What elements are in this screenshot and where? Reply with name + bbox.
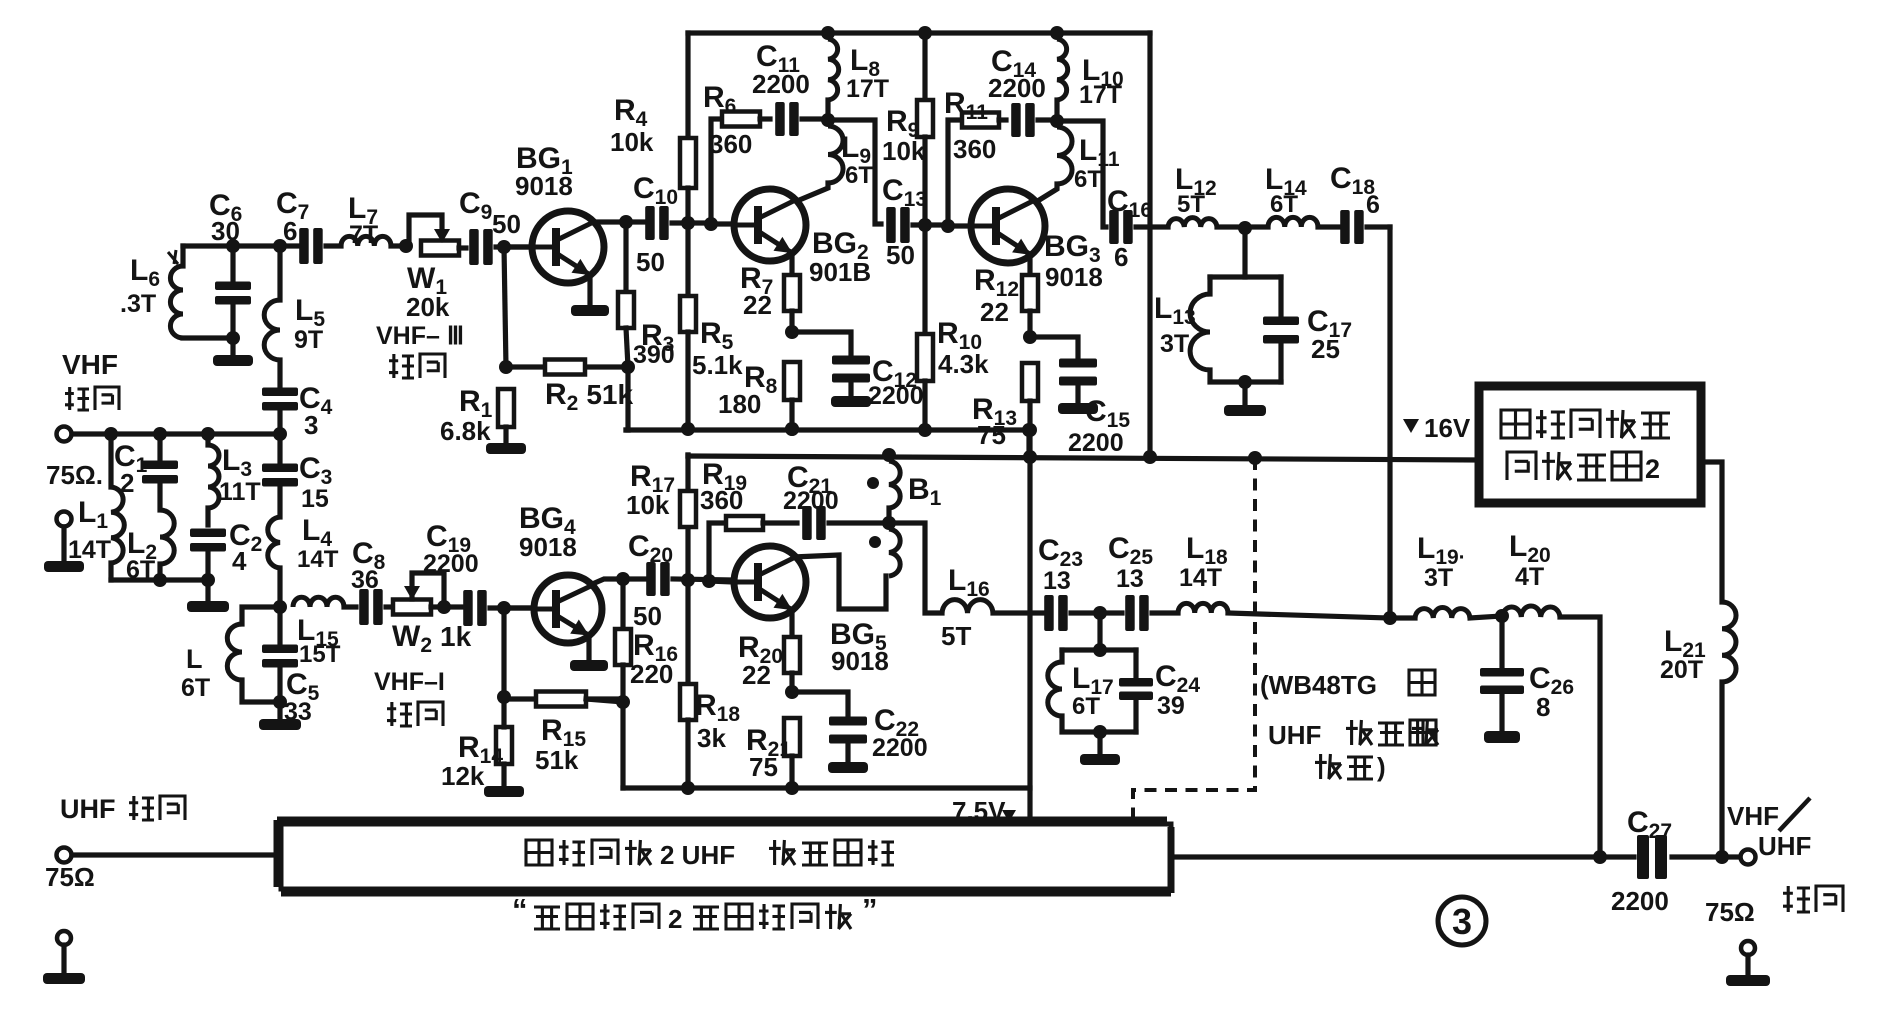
inductor L2 branch [108,434,113,487]
svg-text:3T: 3T [1160,330,1189,358]
ground bottom right [1741,941,1755,955]
svg-text:8: 8 [1536,692,1550,722]
wire B1 to L16 [889,523,942,613]
wire BG4 collector [590,579,648,585]
svg-text:9018: 9018 [515,171,573,201]
svg-text:51k: 51k [535,745,579,775]
svg-text:2 UHF: 2 UHF [660,840,735,870]
wire stage right edge [1147,33,1152,457]
svg-text:360: 360 [700,485,743,515]
svg-text:9018: 9018 [831,646,889,676]
transistor BG3 [971,189,1045,263]
junction R6 tap [704,217,718,231]
svg-text:50: 50 [633,601,662,631]
capacitor C6 [226,239,240,253]
terminal output [1741,850,1756,865]
svg-text:20k: 20k [406,292,450,322]
capacitor C11 [760,116,770,121]
svg-text:5T: 5T [1177,191,1205,218]
svg-text:6T: 6T [1072,693,1100,720]
wire BG4 base [511,605,534,610]
svg-text:22: 22 [980,297,1009,327]
inductor L15 [293,597,344,607]
ground BG1 emitter [587,275,592,305]
capacitor C2 [190,529,226,538]
transistor BG1 [532,211,604,283]
svg-text:.3T: .3T [120,290,156,318]
wire rail drop [1022,423,1036,437]
svg-text:39: 39 [1157,692,1185,720]
svg-text:50: 50 [636,247,665,277]
svg-text:2200: 2200 [988,73,1046,103]
potentiometer W2 [393,600,431,615]
svg-text:2200: 2200 [1068,429,1124,457]
resistor R5 [685,223,690,296]
capacitor C3 [277,434,282,462]
resistor R11 [962,113,999,128]
junction BG1 base node [497,240,511,254]
inductor L12 [1168,218,1217,227]
inductor L8 [821,26,835,40]
transformer B1 [882,448,896,462]
junction input-a [104,427,118,441]
svg-text:20T: 20T [1660,656,1703,684]
resistor R17 [680,491,696,527]
capacitor C14 [999,117,1006,122]
wire input bus [72,431,280,436]
svg-text:4: 4 [232,546,247,576]
box UHF amplifier section [281,824,1171,889]
svg-text:13: 13 [1043,567,1071,595]
junction BG4 base node [497,601,511,615]
svg-text:180: 180 [718,389,761,419]
junction rail x1255 [1248,451,1262,465]
transistor BG4 [534,575,602,643]
junction output L20 [1593,850,1607,864]
svg-text:14T: 14T [68,536,111,564]
wire lower supply rail 7.5V [685,455,690,580]
capacitor C25 [1125,595,1135,631]
junction 16V feed [1383,611,1397,625]
terminal VHF input [57,427,72,442]
ground under C5 [277,702,282,719]
resistor R16 [620,579,625,629]
resistor R9 [918,26,932,40]
svg-text:9T: 9T [294,326,323,354]
wire to C16 [1057,121,1106,227]
transistor BG5 [734,546,806,618]
svg-text:11T: 11T [219,478,261,506]
svg-text:6T: 6T [181,674,210,702]
junction C23 C25 [1093,606,1107,620]
svg-text:VHF: VHF [1727,801,1779,831]
wire R6 C11 feedback [711,119,722,224]
wire BG1 collector [594,219,648,224]
svg-text:VHF– Ⅲ: VHF– Ⅲ [376,322,464,350]
svg-text:3: 3 [1452,901,1472,942]
svg-text:220: 220 [630,659,673,689]
svg-text:75Ω: 75Ω [1705,897,1755,927]
junction rail x1030 [1023,450,1037,464]
svg-text:14T: 14T [1179,564,1222,592]
svg-text:22: 22 [742,660,771,690]
capacitor C13 [886,207,896,243]
svg-text:5T: 5T [941,621,971,651]
ground input tank [205,580,210,601]
svg-text:2200: 2200 [423,550,479,578]
svg-text:6T: 6T [845,162,873,189]
ground BG4 emitter [586,636,591,660]
capacitor C26 [1499,616,1504,668]
inductor L6 [180,246,185,266]
svg-text:13: 13 [1116,565,1144,593]
capacitor C9 [469,229,479,265]
capacitor C27 [1637,835,1649,879]
inductor L4 [268,517,280,568]
junction lower node [273,600,287,614]
svg-text:6T: 6T [1270,191,1298,218]
svg-text:3T: 3T [1424,564,1453,592]
svg-text:30: 30 [211,216,240,246]
svg-text:3: 3 [304,410,318,440]
junction rail R8 [785,422,799,436]
capacitor C7 [299,228,309,264]
inductor L19 [1415,608,1470,618]
svg-text:6T: 6T [1074,166,1102,193]
svg-text:2: 2 [668,904,682,934]
wire BG5 collector to B1 [793,555,886,609]
junction R20 bottom [785,685,799,699]
junction L10 L11 node [1050,114,1064,128]
svg-text:4.3k: 4.3k [938,349,989,379]
wire R19 tap up [709,523,726,581]
inductor L11 [1057,127,1072,184]
terminal UHF input [57,848,72,863]
svg-text:(WB48TG: (WB48TG [1260,670,1377,700]
resistor R19 [726,516,763,530]
svg-text:4T: 4T [1515,563,1544,591]
inductor L10 [1050,26,1064,40]
resistor R4 [685,33,690,138]
resistor R2 [506,364,545,369]
svg-text:VHF: VHF [62,349,118,380]
svg-text:36: 36 [351,566,379,594]
svg-text:9018: 9018 [519,532,577,562]
svg-text:50: 50 [492,209,521,239]
wire box to L21 [1701,462,1722,602]
resistor R1 [504,247,506,367]
wire bottom of input tank [111,577,208,582]
svg-text:6: 6 [1366,191,1380,219]
svg-text:12k: 12k [441,761,485,791]
svg-text:VHF–I: VHF–I [374,668,445,696]
capacitor C12 [792,332,851,355]
wire 7p5 rail segment [685,455,690,456]
inductor L20 [1502,606,1560,617]
inductor L parallel [242,607,280,624]
inductor L18 [1178,603,1228,613]
svg-text:2200: 2200 [783,487,839,515]
capacitor C8 [359,589,369,625]
resistor R13 [1022,363,1038,401]
wire upper chain [183,243,303,248]
svg-text:5.1k: 5.1k [692,350,743,380]
potentiometer W1 [399,239,413,253]
capacitor C10 [645,206,655,240]
svg-text:75Ω: 75Ω [45,862,95,892]
svg-text:75Ω.: 75Ω. [46,460,103,490]
svg-text:6: 6 [1114,242,1128,272]
inductor L9 [828,126,843,183]
svg-text:”: ” [862,892,878,927]
wire C18 to 16V rail [1387,227,1392,619]
resistor R18 [685,580,690,684]
svg-text:75: 75 [977,420,1006,450]
inductor L16 [942,600,993,613]
svg-text:14T: 14T [297,546,339,573]
resistor R10 [922,225,927,334]
svg-text:390: 390 [633,341,675,369]
junction L12 L14 [1238,221,1252,235]
wire BG2 base [711,221,734,226]
junction L8 L9 node [821,113,835,127]
svg-text:15T: 15T [299,641,341,668]
wire 16V rail [688,456,1480,460]
svg-text:10k: 10k [626,490,670,520]
svg-text:2: 2 [1645,454,1660,484]
svg-text:3k: 3k [697,723,726,753]
resistor R21 [784,718,800,756]
capacitor C20 [646,562,656,596]
capacitor C1 [157,434,162,459]
resistor R12 emitter [1027,254,1032,275]
svg-text:2200: 2200 [752,69,810,99]
wire UHF supply drop [1027,430,1032,838]
wire BG5 stage bottom [623,785,1030,790]
capacitor C18 [1340,210,1350,244]
wire to C13 [828,120,881,224]
capacitor C4 [262,388,298,397]
junction BG3 base node [918,218,932,232]
wire R11 C14 feedback [948,120,962,226]
inductor L5 [277,246,282,300]
svg-text:901B: 901B [809,257,871,287]
svg-text:2: 2 [120,468,134,498]
resistor R15 [504,696,536,701]
junction R19 tap [702,574,716,588]
capacitor C19 [463,590,473,626]
resistor R3 [623,222,628,292]
svg-text:2200: 2200 [872,734,928,762]
svg-text:UHF: UHF [1758,831,1811,861]
inductor L21 [1722,602,1736,682]
capacitor C23 [1044,595,1054,631]
svg-text:360: 360 [953,134,996,164]
wire BG5 base [709,581,734,582]
resistor R6 [722,112,760,127]
resistor R14 [501,608,506,697]
junction L19 L20 [1495,609,1509,623]
svg-text:): ) [1377,752,1386,782]
svg-text:15: 15 [301,485,329,513]
svg-text:6: 6 [283,216,297,246]
junction rail x1148 [1143,450,1157,464]
wire stage bottom rail [626,427,1029,432]
svg-text:UHF: UHF [60,794,116,824]
svg-text:10k: 10k [610,127,654,157]
capacitor C5 [277,607,282,643]
svg-text:UHF: UHF [1268,720,1321,750]
svg-text:25: 25 [1311,334,1340,364]
svg-text:7T: 7T [349,221,378,249]
svg-text:“: “ [512,892,528,927]
svg-text:R251k: R251k [545,378,634,415]
svg-text:17T: 17T [846,75,889,103]
junction BG5 base node [681,573,695,587]
resistor R8 [784,362,800,400]
junction BG2 base node [681,216,695,230]
ground under C6 [213,355,253,366]
svg-text:2200: 2200 [1611,886,1669,916]
svg-text:10k: 10k [882,136,926,166]
svg-text:9018: 9018 [1045,262,1103,292]
junction R7 bottom [785,325,799,339]
inductor L1 [57,512,72,527]
box rectifier-filter [1479,386,1701,503]
svg-text:6.8k: 6.8k [440,416,491,446]
capacitor C21 [763,520,797,525]
capacitor C16 [1109,210,1119,244]
svg-text:2200: 2200 [868,382,924,410]
svg-text:L: L [186,644,203,674]
junction R12 bottom [1023,330,1037,344]
wire dashed UHF supply [1133,458,1255,827]
inductor L7 [341,236,391,246]
capacitor C15 [1030,337,1078,358]
svg-text:22: 22 [743,290,772,320]
wire UHF input [72,852,275,857]
junction L5 top [273,239,287,253]
node figure number 3 [1438,897,1486,945]
resistor R20 emitter [789,609,794,637]
transistor BG2 [734,189,806,261]
junction R3 top [619,215,633,229]
wire to L19 [1390,615,1415,620]
inductor L14 [1268,217,1318,227]
wire BG3 base [948,223,971,228]
svg-text:17T: 17T [1079,81,1122,109]
inductor L3 [201,427,215,441]
ground bottom left [57,931,71,945]
svg-text:16V: 16V [1424,413,1471,443]
tank L13 C17 [1242,228,1247,277]
wire top supply rail [688,30,1150,35]
junction R16 top [616,572,630,586]
capacitor C22 [792,692,848,716]
svg-text:360: 360 [709,129,752,159]
resistor R7 emitter [789,252,794,275]
wire output [1171,854,1634,859]
node 16V label [1403,419,1419,433]
svg-text:50: 50 [886,240,915,270]
tank L17 C24 [1097,613,1102,650]
wire BG1 base [511,244,532,249]
junction output L21 [1715,850,1729,864]
junction R11 tap [941,219,955,233]
svg-text:75: 75 [749,752,778,782]
